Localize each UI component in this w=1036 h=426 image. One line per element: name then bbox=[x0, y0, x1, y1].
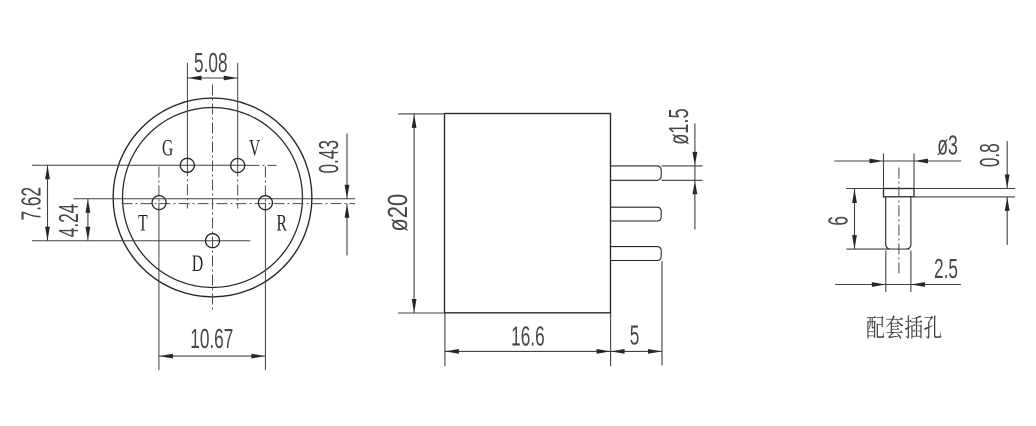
svg-text:4.24: 4.24 bbox=[53, 204, 84, 238]
dimension phi3 bbox=[834, 129, 961, 188]
socket panel surface line bbox=[846, 188, 1015, 190]
svg-text:10.67: 10.67 bbox=[190, 323, 233, 354]
dimension 10.67 bbox=[159, 323, 266, 359]
dimension 0.8 bbox=[973, 141, 1009, 245]
svg-text:ø20: ø20 bbox=[383, 194, 414, 232]
svg-text:V: V bbox=[249, 136, 260, 162]
dimension 7.62 bbox=[15, 165, 50, 241]
svg-text:0.43: 0.43 bbox=[313, 140, 344, 174]
vertical centerline bbox=[212, 85, 214, 311]
caption: mating socket (Chinese) bbox=[867, 315, 942, 338]
connector inner circle bbox=[123, 108, 303, 288]
D row line bbox=[32, 240, 250, 242]
dimension 2.5 bbox=[835, 251, 961, 293]
svg-text:6: 6 bbox=[822, 216, 853, 226]
pin V bbox=[231, 159, 245, 173]
pin R vertical extension bbox=[264, 167, 266, 371]
svg-text:D: D bbox=[192, 251, 203, 277]
connector outer circle bbox=[113, 98, 312, 297]
svg-text:0.8: 0.8 bbox=[973, 143, 1004, 167]
pin T vertical extension bbox=[158, 167, 160, 371]
svg-text:5: 5 bbox=[630, 319, 640, 350]
socket centerline bbox=[898, 168, 900, 275]
svg-text:R: R bbox=[276, 211, 287, 237]
dimension 4.24 bbox=[53, 199, 91, 241]
pin G vertical extension bbox=[186, 63, 188, 209]
pin G bbox=[180, 158, 194, 172]
svg-text:G: G bbox=[162, 136, 173, 162]
pin V vertical extension bbox=[237, 63, 239, 209]
terminal pin 2 (side view) bbox=[611, 207, 662, 221]
terminal pin 1 (side view) bbox=[611, 166, 662, 180]
svg-text:ø3: ø3 bbox=[937, 129, 958, 160]
dimension phi1.5 bbox=[662, 108, 703, 229]
socket bore bbox=[886, 197, 911, 249]
svg-text:2.5: 2.5 bbox=[934, 252, 958, 283]
flange bottom extension line bbox=[914, 196, 1015, 198]
terminal pin 3 (side view) bbox=[611, 247, 662, 261]
svg-text:5.08: 5.08 bbox=[194, 47, 228, 78]
dimension 6 bbox=[822, 189, 909, 249]
dimension 0.43 bbox=[313, 134, 350, 256]
svg-text:ø1.5: ø1.5 bbox=[664, 108, 695, 144]
dimension 16.6 bbox=[445, 313, 611, 366]
pin R bbox=[258, 196, 272, 210]
pin D bbox=[206, 234, 220, 248]
svg-text:16.6: 16.6 bbox=[511, 320, 545, 351]
horizontal center line (solid, through T-R row) bbox=[74, 198, 356, 200]
horizontal pin centerline (dash-dot, 0.43 below) bbox=[122, 203, 356, 205]
G-V row line bbox=[32, 164, 277, 166]
dimension phi20 bbox=[383, 114, 445, 313]
svg-text:7.62: 7.62 bbox=[15, 187, 46, 221]
dimension 5 bbox=[611, 261, 662, 366]
dimension 5.08 bbox=[188, 47, 238, 81]
pin T bbox=[152, 196, 166, 210]
svg-text:T: T bbox=[138, 211, 148, 237]
socket flange bbox=[884, 189, 915, 197]
connector body rectangle bbox=[445, 114, 611, 313]
